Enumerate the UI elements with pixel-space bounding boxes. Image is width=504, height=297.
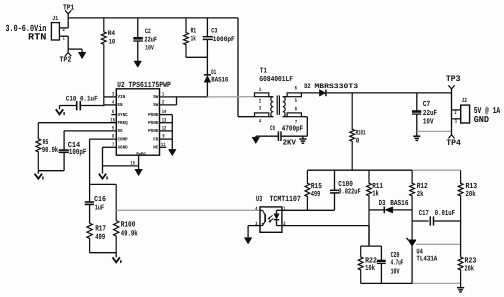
svg-text:12: 12 [162, 126, 167, 132]
svg-text:C17: C17 [419, 209, 429, 218]
svg-text:T1: T1 [260, 68, 268, 76]
test point TP1 [63, 4, 75, 18]
resistor R12 [410, 170, 428, 240]
svg-text:SS: SS [118, 128, 123, 134]
svg-text:2: 2 [63, 27, 65, 33]
ground at C2 [134, 61, 142, 68]
capacitor C14 [59, 131, 87, 171]
svg-text:PwPd: PwPd [136, 152, 146, 157]
resistor R17 [87, 223, 106, 253]
wire VIN pin 3 stub [104, 92, 117, 98]
capacitor C17 [412, 209, 461, 226]
svg-text:C16: C16 [94, 196, 106, 204]
wire R1-C3 junction [186, 56, 207, 58]
diode D1 [204, 57, 228, 97]
svg-text:2: 2 [162, 100, 164, 106]
wire R17 bottom [90, 252, 117, 254]
svg-text:4: 4 [255, 206, 257, 212]
svg-text:J2: J2 [462, 97, 468, 104]
svg-text:U2: U2 [117, 81, 124, 90]
diode D2 [301, 83, 358, 96]
capacitor C2 [133, 18, 157, 61]
svg-text:10V: 10V [423, 117, 434, 126]
svg-text:FREQ: FREQ [118, 120, 128, 126]
wire PGND pin 14 stub [160, 109, 173, 115]
ground at J1 return [78, 49, 86, 59]
capacitor C100 [330, 170, 361, 210]
svg-text:R23: R23 [465, 256, 477, 265]
svg-text:6: 6 [112, 109, 114, 115]
svg-text:R12: R12 [417, 182, 428, 191]
wire TL431 ref [416, 243, 461, 245]
svg-text:R1: R1 [191, 28, 197, 36]
wire C7 to TP4 ground [417, 130, 452, 132]
resistor R15 [305, 170, 322, 210]
resistor R1 [184, 18, 197, 57]
svg-text:R11: R11 [372, 182, 383, 191]
wire PwPd pad 15 [103, 155, 139, 166]
svg-text:C9: C9 [270, 124, 275, 132]
resistor R13 [458, 170, 477, 221]
ground at C9 primary side [252, 136, 260, 143]
svg-text:R22: R22 [365, 256, 377, 265]
svg-text:D2: D2 [304, 83, 310, 91]
svg-text:1uF: 1uF [95, 204, 105, 212]
svg-text:R101: R101 [356, 129, 366, 137]
U2 PwPd pad name [136, 152, 146, 157]
svg-text:C3: C3 [211, 27, 217, 35]
svg-text:COMP: COMP [118, 136, 128, 142]
svg-text:1: 1 [63, 35, 65, 41]
svg-text:9: 9 [162, 134, 164, 140]
svg-text:RTN: RTN [28, 31, 47, 42]
svg-text:J1: J1 [52, 15, 58, 22]
wire secondary ground rail [361, 282, 461, 284]
svg-text:20k: 20k [465, 264, 475, 273]
capacitor C10 [60, 96, 104, 111]
analog ground at AGND [99, 171, 107, 180]
wire SS pin 5 to C14 [64, 126, 116, 132]
wire rail to transformer primary [238, 18, 255, 117]
wire FREQ pin 16 to R5 [38, 117, 116, 123]
svg-text:SYNC: SYNC [118, 112, 128, 118]
svg-text:4: 4 [112, 100, 114, 106]
svg-text:PGND: PGND [148, 128, 158, 134]
svg-text:G084001LF: G084001LF [259, 76, 293, 84]
wire R5 bottom to C14 [38, 170, 64, 172]
svg-text:1: 1 [162, 92, 164, 98]
transformer T1 core [277, 95, 279, 115]
resistor R11 [367, 170, 384, 246]
capacitor C7 [412, 93, 437, 136]
svg-text:5: 5 [112, 126, 114, 132]
op-amp U2 TPS61175PWP body [116, 81, 171, 155]
svg-text:PGND: PGND [148, 112, 158, 118]
svg-text:5: 5 [295, 98, 297, 104]
wire COMP pin 8 [90, 134, 117, 185]
svg-text:1k: 1k [191, 34, 197, 43]
svg-text:C7: C7 [423, 100, 431, 109]
capacitor C16 [85, 184, 107, 223]
wire opto emitter [248, 226, 260, 238]
svg-text:C10 0.1uF: C10 0.1uF [66, 96, 98, 104]
svg-text:4.7uF: 4.7uF [391, 260, 404, 268]
ground at PGND ladder [169, 149, 177, 156]
connector J2 [461, 97, 470, 123]
wire NC pin 11 stub [160, 142, 167, 148]
svg-text:499: 499 [95, 233, 105, 242]
svg-text:FB: FB [153, 136, 158, 142]
svg-text:1000pF: 1000pF [213, 36, 235, 44]
svg-text:TL431A: TL431A [416, 256, 437, 264]
svg-text:BAS16: BAS16 [211, 77, 228, 85]
label 5V @ 1A [474, 106, 501, 116]
wire R22-C20 top [361, 226, 382, 247]
wire COMP node [90, 183, 117, 185]
svg-text:PGND: PGND [148, 120, 158, 126]
svg-text:11: 11 [161, 142, 166, 148]
wire PGND pin 13 stub [160, 117, 173, 123]
svg-text:GND: GND [474, 114, 490, 125]
wire SW pin 2 stub [160, 97, 177, 106]
transformer T1 labels [259, 68, 293, 84]
wire AGND pin 7 [103, 142, 117, 171]
svg-text:TPS61175PWP: TPS61175PWP [128, 81, 171, 90]
label 3.0-6.0Vin [5, 23, 46, 34]
capacitor C9 [256, 124, 304, 147]
svg-text:R100: R100 [121, 220, 136, 229]
resistor R23 [458, 256, 476, 283]
svg-text:D3: D3 [379, 199, 386, 208]
U2 left pin names [118, 94, 128, 150]
wire J1 pin 1 [59, 35, 82, 49]
ground at opto emitter [244, 237, 252, 244]
wire opto anode line [282, 209, 335, 211]
svg-text:16: 16 [110, 117, 115, 123]
svg-text:1k: 1k [372, 190, 379, 199]
svg-text:10: 10 [109, 39, 116, 47]
wire EN pin 4 stub [104, 100, 117, 106]
test point TP4 [446, 131, 461, 148]
label RTN [28, 31, 47, 42]
wire opto cathode line [282, 225, 369, 227]
diode D3 [369, 199, 412, 213]
svg-text:SW: SW [153, 94, 158, 100]
svg-text:VIN: VIN [118, 94, 126, 100]
svg-text:R15: R15 [311, 183, 322, 191]
svg-text:NC: NC [153, 145, 158, 151]
analog ground at R5 [35, 171, 43, 180]
U2 right pin names [148, 94, 158, 150]
svg-text:499: 499 [311, 190, 321, 199]
resistor R22 [358, 246, 377, 283]
wire SYNC pin 6 stub [111, 109, 116, 115]
analog ground at C10 [56, 106, 64, 116]
transformer T1 primary pins 3-4 [255, 106, 269, 125]
svg-text:R13: R13 [466, 182, 478, 191]
test point TP3 [446, 74, 461, 93]
transformer T1 primary pins 1-2 [255, 87, 269, 105]
earth ground at R23 [457, 283, 464, 292]
svg-text:20k: 20k [466, 190, 476, 199]
svg-text:14: 14 [162, 109, 167, 115]
svg-text:1: 1 [455, 118, 457, 124]
svg-text:3: 3 [112, 92, 114, 98]
svg-text:MBRS330T3: MBRS330T3 [314, 83, 358, 91]
svg-text:15: 15 [130, 160, 135, 166]
svg-text:6: 6 [295, 85, 297, 91]
resistor R100 [114, 184, 138, 252]
wire SW pin 1 stub [160, 92, 177, 98]
svg-text:7: 7 [112, 142, 114, 148]
wire output rail [326, 92, 452, 94]
resistor R101 [350, 93, 366, 170]
svg-text:8: 8 [112, 134, 114, 140]
wire R13 to R23 [460, 221, 462, 257]
wire sense rail [307, 169, 460, 171]
transformer T1 primary winding [269, 97, 274, 117]
svg-text:2KV: 2KV [283, 138, 297, 147]
svg-text:TP2: TP2 [59, 56, 71, 65]
svg-text:SW: SW [153, 102, 158, 108]
svg-text:0.022uF: 0.022uF [338, 187, 361, 196]
svg-text:49.9k: 49.9k [121, 230, 138, 239]
wire FB pin 9 stub [160, 134, 173, 140]
earth ground at C7 [413, 136, 420, 141]
svg-text:10V: 10V [145, 43, 154, 51]
opto U3 internal transistor [260, 210, 265, 225]
transformer T1 secondary pins 8-7 [287, 107, 301, 126]
capacitor C3 [203, 18, 235, 57]
wire secondary return [281, 117, 307, 137]
svg-text:U3: U3 [256, 195, 262, 204]
transformer T1 secondary winding [283, 97, 287, 117]
svg-text:2k: 2k [417, 190, 424, 199]
svg-text:4700pF: 4700pF [282, 125, 304, 134]
opto-coupler U3 TCMT1107 [255, 195, 301, 232]
svg-text:0.01uF: 0.01uF [435, 209, 456, 218]
label GND [474, 114, 490, 125]
wire opto collector line [116, 209, 260, 211]
resistor R5 [36, 123, 58, 171]
svg-text:BAS16: BAS16 [390, 199, 409, 208]
ground at PwPd pad [135, 166, 143, 176]
svg-text:TCMT1107: TCMT1107 [270, 195, 302, 204]
svg-text:TP4: TP4 [446, 138, 461, 148]
svg-text:22uF: 22uF [423, 109, 437, 118]
svg-text:100pF: 100pF [69, 148, 87, 157]
svg-text:TP1: TP1 [63, 4, 75, 12]
wire J2 pin 1 [452, 110, 461, 131]
connector J1 [51, 15, 59, 40]
analog ground at R100 [113, 253, 121, 263]
svg-text:10k: 10k [365, 264, 375, 273]
svg-text:2: 2 [454, 110, 456, 116]
svg-text:R4: R4 [108, 30, 116, 38]
transformer T1 secondary pins 6-5 [287, 85, 301, 104]
svg-text:2: 2 [259, 99, 261, 105]
svg-text:3: 3 [259, 106, 261, 112]
svg-text:0: 0 [356, 138, 360, 146]
shunt regulator U4 TL431A [407, 238, 438, 284]
svg-text:10V: 10V [391, 268, 400, 277]
wire TP3 node to J2 pin 2 [452, 93, 461, 116]
wire SW node to transformer [177, 96, 255, 98]
svg-text:C2: C2 [145, 27, 151, 35]
capacitor C20 [377, 246, 404, 283]
svg-text:EN: EN [118, 102, 123, 108]
wire PGND pin 12 stub [160, 126, 173, 132]
test point TP2 [59, 49, 71, 65]
svg-text:8: 8 [295, 107, 297, 113]
svg-text:13: 13 [162, 117, 167, 123]
svg-text:1: 1 [259, 87, 261, 93]
resistor R4 [101, 18, 115, 106]
wire J1 pin 2 to rail [59, 18, 68, 33]
earth ground at C9 secondary side [299, 136, 306, 143]
svg-text:1: 1 [283, 206, 285, 212]
wire PGND ladder [171, 115, 173, 149]
svg-text:AGND: AGND [118, 145, 128, 151]
svg-text:90.9k: 90.9k [42, 146, 58, 155]
wire input rail [68, 17, 238, 19]
svg-text:TP3: TP3 [446, 74, 461, 84]
opto U3 internal LED [268, 210, 282, 225]
